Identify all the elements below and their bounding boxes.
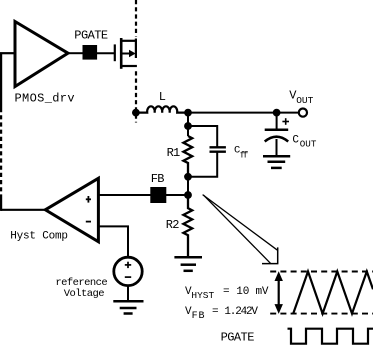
svg-text:FB: FB (151, 172, 164, 186)
svg-text:OUT: OUT (296, 95, 313, 106)
transistor Q1 PMOS gate bar (114, 44, 116, 61)
svg-text:L: L (159, 90, 166, 104)
svg-text:PGATE: PGATE (74, 29, 108, 43)
svg-text:10 mV: 10 mV (236, 286, 269, 298)
node R1 top junction dot (184, 122, 192, 130)
node FB junction dot (184, 191, 192, 199)
wire dashed from drain down to inductor node (135, 71, 137, 122)
wire dashed VIN rail above PMOS (135, 0, 137, 37)
wire feedback column top segment (187, 113, 189, 136)
callout pointer shaft lower line (204, 195, 271, 263)
svg-text:OUT: OUT (300, 139, 317, 150)
callout pointer shaft upper line (203, 195, 278, 251)
plus sign inside source (125, 264, 131, 266)
svg-text:FB: FB (192, 311, 206, 322)
transistor Q1 drain lead (bottom) (121, 65, 137, 67)
svg-text:Hyst Comp: Hyst Comp (10, 231, 68, 243)
terminal VOUT open circle (299, 109, 307, 117)
node R1 bottom junction dot (184, 173, 192, 181)
wire comparator minus input to reference (98, 226, 128, 257)
op-amp U2 Hyst Comp triangle (45, 178, 98, 241)
capacitor COUT curved bottom plate (265, 137, 289, 142)
transistor Q1 source lead (top) (121, 40, 137, 42)
inductor L (136, 106, 188, 112)
minus input marker (86, 221, 91, 223)
double-headed arrow VHYST span (278, 274, 280, 311)
minus sign inside source (125, 276, 131, 278)
svg-text:R2: R2 (166, 218, 179, 232)
capacitor COUT top plate (265, 128, 289, 131)
wire comparator output to driver input: horizontal at output (1, 209, 45, 211)
resistor R2 (183, 195, 192, 257)
node switch-node junction dot (132, 109, 140, 117)
node inductor output dot (184, 109, 192, 117)
resistor R1 (183, 136, 192, 177)
plus input marker (86, 198, 91, 200)
wire driver output to PGATE node (68, 52, 83, 54)
svg-text:Voltage: Voltage (64, 288, 105, 300)
capacitor Cff bottom plate (210, 150, 226, 152)
svg-text:=: = (223, 286, 229, 298)
wire VOUT node down to COUT (276, 113, 278, 130)
svg-text:reference: reference (55, 277, 107, 289)
svg-text:R1: R1 (167, 146, 180, 160)
svg-text:C: C (292, 135, 299, 147)
wire Cff branch (188, 126, 217, 177)
capacitor Cff top plate (210, 146, 226, 148)
wire FB node to comparator plus input (98, 194, 188, 196)
svg-text:HYST: HYST (191, 290, 214, 301)
wire left vertical feedback run (solid bottom) (0, 197, 2, 211)
node FB (filled square) (150, 187, 166, 203)
wire PGATE node to gate (97, 52, 115, 54)
wire left vertical feedback run (solid top part) (0, 53, 2, 108)
callout open arrowhead (262, 247, 278, 263)
svg-text:PGATE: PGATE (221, 331, 255, 345)
node PGATE (filled square) (83, 45, 98, 60)
svg-text:1.242V: 1.242V (224, 306, 258, 318)
dashed upper bound of ripple window (270, 271, 373, 273)
dashed lower bound of ripple window (270, 313, 373, 315)
transistor Q1 channel bar (120, 38, 123, 69)
svg-text:=: = (212, 306, 218, 318)
wire VOUT rail (188, 112, 299, 114)
transistor Q1 body lead with arrow (121, 53, 129, 55)
wire left vertical feedback run (dashed middle) (0, 108, 2, 197)
polarity plus sign for COUT (282, 121, 289, 123)
wire COUT to ground (276, 139, 278, 156)
wire R1 bottom to FB node (187, 177, 189, 195)
op-amp U1 PMOS_drv buffer triangle (15, 22, 68, 87)
wire into driver input (0, 52, 15, 54)
ground (R2) (174, 256, 202, 259)
node VOUT junction dot (273, 109, 281, 117)
voltage source reference (circle) (114, 257, 142, 285)
waveform PGATE square wave (288, 329, 373, 344)
waveform triangle ripple on FB (293, 272, 373, 314)
svg-text:PMOS_drv: PMOS_drv (15, 92, 75, 106)
ground (reference) (113, 300, 143, 303)
wire source-body tie vertical (135, 39, 137, 59)
ground (COUT) (263, 155, 290, 158)
wire source to ground (127, 286, 129, 302)
